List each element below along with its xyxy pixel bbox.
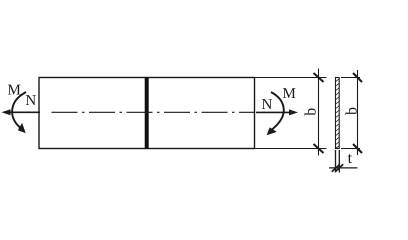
dimension line b section (vertical) [357,70,359,155]
svg-text:N: N [262,97,273,113]
svg-text:b: b [343,107,360,115]
tick bottom of section b dimension [353,144,362,153]
tick bottom of b dimension [314,144,324,153]
force N arrow left (shaft) [9,111,40,113]
tick right of t dimension [335,164,343,172]
svg-text:t: t [348,150,353,167]
plate cross-section (hatched) [336,78,340,149]
force N arrow right (head) [289,109,298,115]
weld seam (thick vertical line) [145,77,149,149]
tick left of t dimension [332,164,340,172]
moment M arc left [12,92,26,128]
svg-text:N: N [25,93,36,109]
extension line left (t dimension) [335,150,337,173]
centerline (dash-dot) [52,111,255,113]
hatch lines [335,79,339,148]
dimension line t (horizontal) [329,167,358,169]
moment M arc right [271,92,284,130]
force N arrow right (shaft) [256,111,291,113]
extension line right (t dimension) [338,150,340,173]
tick top of b dimension [314,73,324,82]
svg-text:M: M [283,86,296,102]
extension line top (section to b dimension) [341,77,360,79]
svg-text:M: M [8,83,21,99]
svg-text:b: b [303,108,320,116]
extension line top (beam to b dimension) [255,77,327,79]
plate elevation rectangle [39,78,255,149]
moment M arc left arrowhead [18,123,26,133]
dimension line b (vertical) [318,69,320,156]
force N arrow left (head) [2,109,11,115]
extension line bottom (beam to b dimension) [255,148,327,150]
moment M arc right arrowhead [267,127,277,135]
extension line bottom (section to b dimension) [341,148,360,150]
tick top of section b dimension [353,73,362,82]
